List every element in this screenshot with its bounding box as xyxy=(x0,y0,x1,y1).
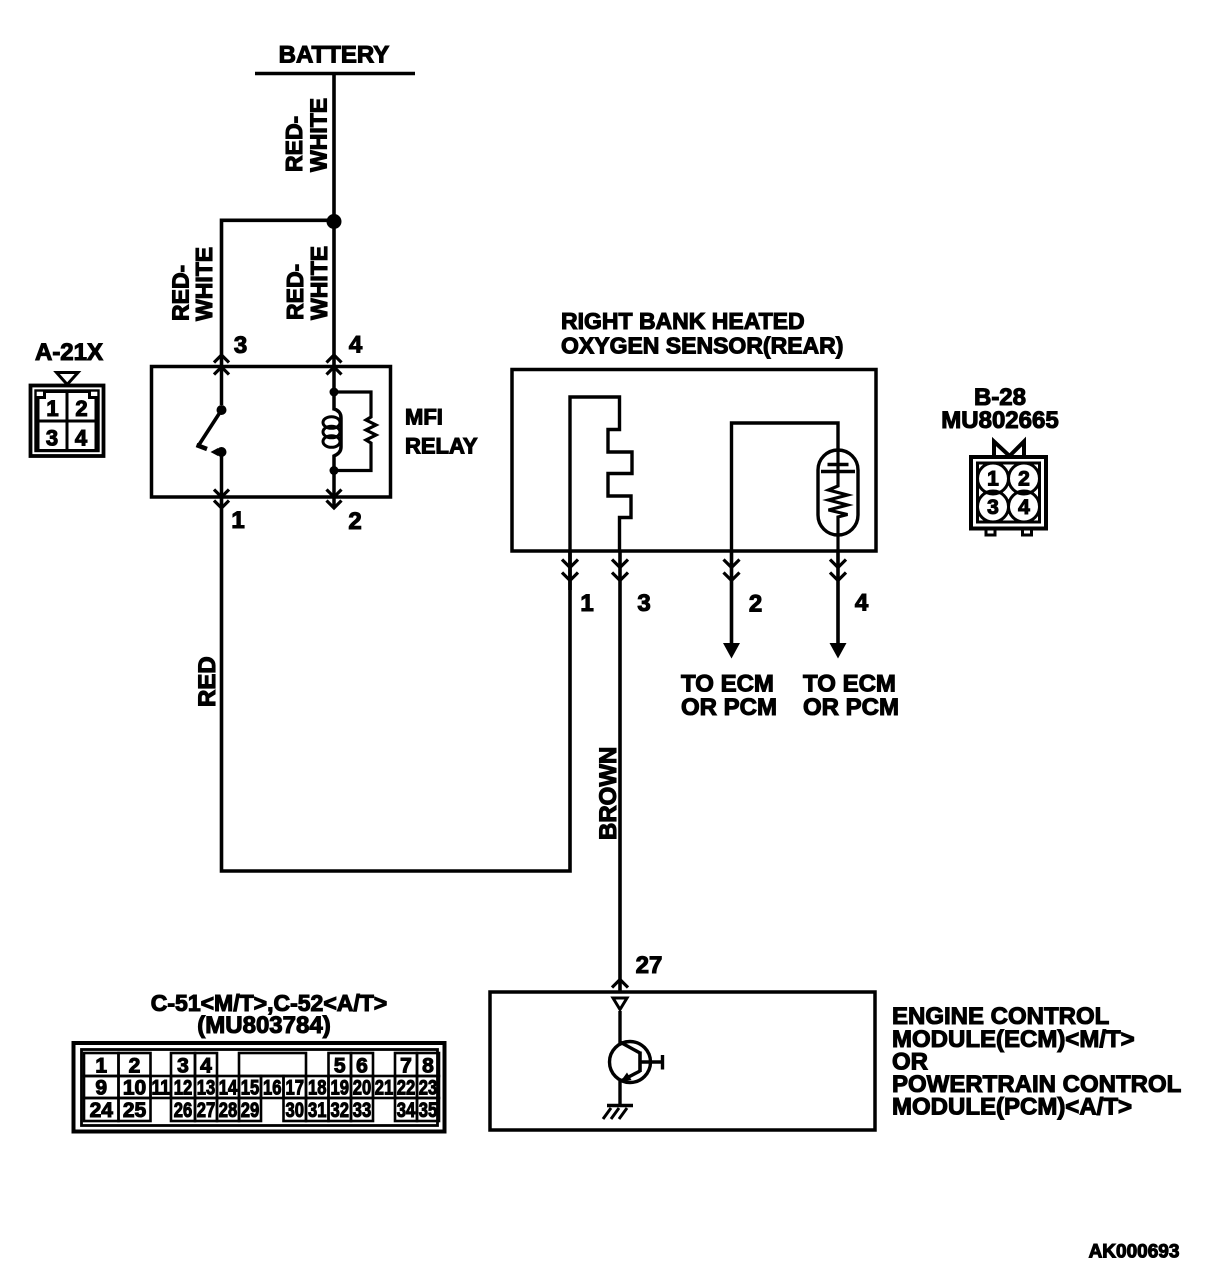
svg-text:BROWN: BROWN xyxy=(595,747,622,840)
wire junction branch to relay pin 3 xyxy=(222,220,335,368)
svg-text:23: 23 xyxy=(419,1077,438,1100)
transistor emitter xyxy=(621,1071,640,1081)
connector B-28 keying mark xyxy=(994,442,1024,458)
engine control module box xyxy=(490,992,875,1130)
svg-text:1: 1 xyxy=(580,590,593,617)
svg-text:9: 9 xyxy=(95,1077,107,1100)
oxygen sensor title xyxy=(561,308,843,359)
coil bottom junction node xyxy=(330,466,339,475)
svg-text:4: 4 xyxy=(200,1055,212,1078)
svg-text:17: 17 xyxy=(286,1077,305,1100)
svg-text:22: 22 xyxy=(397,1077,416,1100)
svg-text:32: 32 xyxy=(331,1099,350,1122)
svg-text:1: 1 xyxy=(231,507,244,534)
transistor base lead xyxy=(640,1060,662,1063)
svg-text:33: 33 xyxy=(353,1099,372,1122)
svg-text:29: 29 xyxy=(241,1099,260,1122)
pin 2 connector arrows xyxy=(327,490,342,509)
svg-text:21: 21 xyxy=(375,1077,394,1100)
transistor collector xyxy=(620,1042,640,1053)
ECM entry connector arrow xyxy=(612,980,628,988)
heater resistor xyxy=(829,450,848,551)
relay switch arm foot xyxy=(197,445,208,449)
svg-text:(MU803784): (MU803784) xyxy=(197,1012,330,1039)
connector A-21X keying triangle xyxy=(57,373,79,385)
junction node xyxy=(327,214,342,229)
wire RED from relay pin 1 to sensor pin 1 xyxy=(222,497,571,871)
svg-text:24: 24 xyxy=(90,1099,114,1122)
svg-text:MODULE(PCM)<A/T>: MODULE(PCM)<A/T> xyxy=(892,1094,1132,1121)
svg-text:4: 4 xyxy=(855,590,869,617)
ECM entry triangle (female terminal) xyxy=(613,998,627,1010)
svg-text:27: 27 xyxy=(636,952,663,979)
svg-text:4: 4 xyxy=(349,332,363,359)
svg-text:RIGHT BANK HEATED: RIGHT BANK HEATED xyxy=(561,308,805,334)
svg-text:RELAY: RELAY xyxy=(405,434,478,459)
transistor emitter arrowhead xyxy=(621,1073,632,1082)
svg-text:6: 6 xyxy=(356,1055,368,1078)
svg-text:12: 12 xyxy=(174,1077,193,1100)
relay switch wire to pin 1 xyxy=(220,452,224,497)
heater plate short bar xyxy=(828,463,849,466)
svg-text:16: 16 xyxy=(263,1077,282,1100)
svg-text:1: 1 xyxy=(95,1055,107,1078)
svg-text:WHITE: WHITE xyxy=(306,246,332,320)
arrow to ECM (pin 4) xyxy=(830,643,847,659)
ECM / PCM label block xyxy=(892,1003,1181,1121)
battery bus bar xyxy=(255,72,415,76)
svg-text:A-21X: A-21X xyxy=(35,339,103,366)
svg-text:2: 2 xyxy=(129,1055,141,1078)
svg-text:RED: RED xyxy=(194,656,221,707)
heater plate long bar xyxy=(821,470,855,473)
svg-text:5: 5 xyxy=(334,1055,346,1078)
svg-text:OR PCM: OR PCM xyxy=(803,694,899,721)
svg-text:15: 15 xyxy=(241,1077,260,1100)
svg-text:31: 31 xyxy=(308,1099,327,1122)
svg-text:30: 30 xyxy=(286,1099,305,1122)
sensor pin 3 lead (BROWN) with connector arrows xyxy=(618,551,622,993)
relay coil loops xyxy=(323,417,340,448)
svg-text:14: 14 xyxy=(219,1077,238,1100)
svg-text:11: 11 xyxy=(152,1077,171,1100)
MFI relay box xyxy=(152,367,391,498)
wire to transistor xyxy=(618,1011,621,1043)
svg-text:2: 2 xyxy=(75,396,87,421)
wire battery to junction xyxy=(332,74,336,369)
svg-text:3: 3 xyxy=(637,590,650,617)
connector A-21X outer shell xyxy=(31,386,104,457)
svg-text:RED-: RED- xyxy=(282,264,308,320)
connector B-28 inner shell xyxy=(978,463,1040,522)
svg-text:7: 7 xyxy=(400,1055,412,1078)
svg-text:WHITE: WHITE xyxy=(191,247,217,321)
svg-text:3: 3 xyxy=(46,426,58,451)
svg-text:10: 10 xyxy=(123,1077,146,1100)
relay label xyxy=(405,405,478,459)
connector B-28 pin circles xyxy=(978,463,1040,522)
connector C-51/C-52 cavity row 3 xyxy=(84,1098,439,1122)
transistor Q1 circle xyxy=(610,1042,651,1083)
svg-text:20: 20 xyxy=(353,1077,372,1100)
svg-text:OXYGEN SENSOR(REAR): OXYGEN SENSOR(REAR) xyxy=(561,333,843,359)
relay switch wire from pin 3 xyxy=(220,368,224,405)
svg-text:RED-: RED- xyxy=(281,116,307,172)
TO ECM OR PCM label (pin 4) xyxy=(803,671,899,722)
relay coil wire with bulge xyxy=(334,368,341,497)
svg-text:OR PCM: OR PCM xyxy=(681,694,777,721)
relay switch arm xyxy=(199,410,222,446)
svg-text:28: 28 xyxy=(219,1099,238,1122)
connector C-51/C-52 blank cavity xyxy=(239,1053,306,1076)
sensor pin 2 lead with connector arrows xyxy=(730,551,734,644)
transistor base terminal bar xyxy=(661,1055,664,1070)
relay switch lower contact xyxy=(217,447,227,457)
wire label RED-WHITE (battery feed) xyxy=(281,98,332,172)
connector A-21X cavity grid xyxy=(38,392,96,451)
svg-text:3: 3 xyxy=(987,496,999,519)
connector B-28 outer shell xyxy=(971,457,1046,529)
svg-text:1: 1 xyxy=(987,468,999,491)
wire transistor to ground xyxy=(618,1081,621,1105)
svg-text:4: 4 xyxy=(75,426,88,451)
pin 4 connector arrows xyxy=(327,355,342,375)
svg-text:2: 2 xyxy=(348,508,361,535)
svg-text:RED-: RED- xyxy=(168,265,194,321)
pin 2 wire stub xyxy=(332,497,336,508)
connector C-51/C-52 cavity row 1 xyxy=(84,1053,439,1078)
svg-text:MODULE(ECM)<M/T>: MODULE(ECM)<M/T> xyxy=(892,1026,1135,1053)
pin 1 connector arrows xyxy=(214,490,229,509)
ground xyxy=(603,1106,633,1120)
wire label RED-WHITE (left branch) xyxy=(168,247,218,321)
sensor pin 4 lead with connector arrows xyxy=(836,551,840,644)
coil top junction node xyxy=(330,388,339,397)
svg-text:25: 25 xyxy=(123,1099,147,1122)
arrow to ECM (pin 2) xyxy=(723,643,740,659)
svg-text:BATTERY: BATTERY xyxy=(279,42,390,69)
svg-text:1: 1 xyxy=(46,396,58,421)
svg-text:34: 34 xyxy=(397,1099,416,1122)
connector B-28 mounting feet xyxy=(986,529,1032,536)
connector C-51/C-52 inner shell xyxy=(82,1050,438,1126)
relay switch top contact xyxy=(217,405,227,415)
svg-text:AK000693: AK000693 xyxy=(1089,1242,1180,1263)
sensor pin 1 lead with connector arrows xyxy=(568,551,572,590)
sensor element (zirconia cell) xyxy=(570,397,632,551)
svg-text:WHITE: WHITE xyxy=(306,98,332,172)
svg-text:MU802665: MU802665 xyxy=(941,407,1058,434)
relay switch lower contact tick xyxy=(211,448,219,456)
svg-text:2: 2 xyxy=(749,591,762,618)
wire label RED-WHITE (right branch) xyxy=(282,246,332,320)
svg-text:13: 13 xyxy=(197,1077,216,1100)
connector C-51/C-52 outer shell xyxy=(74,1043,445,1132)
svg-text:4: 4 xyxy=(1018,496,1030,519)
svg-text:3: 3 xyxy=(234,332,247,359)
svg-text:35: 35 xyxy=(419,1099,438,1122)
svg-text:MFI: MFI xyxy=(405,405,443,430)
heater capsule xyxy=(818,450,858,535)
pin 3 connector arrows xyxy=(214,355,229,375)
svg-text:2: 2 xyxy=(1018,468,1030,491)
svg-text:8: 8 xyxy=(422,1055,434,1078)
svg-text:26: 26 xyxy=(174,1099,193,1122)
TO ECM OR PCM label (pin 2) xyxy=(681,671,777,722)
svg-text:19: 19 xyxy=(331,1077,350,1100)
connector A-21X inner shell xyxy=(36,391,99,452)
heater circuit wire xyxy=(732,423,839,551)
right bank heated oxygen sensor (rear) box xyxy=(512,370,876,552)
transistor base bar xyxy=(638,1052,642,1073)
svg-text:27: 27 xyxy=(197,1099,216,1122)
connector C-51/C-52 cavity row 2 xyxy=(84,1076,439,1100)
svg-text:18: 18 xyxy=(308,1077,327,1100)
svg-text:3: 3 xyxy=(177,1055,189,1078)
relay resistor branch xyxy=(334,392,376,471)
